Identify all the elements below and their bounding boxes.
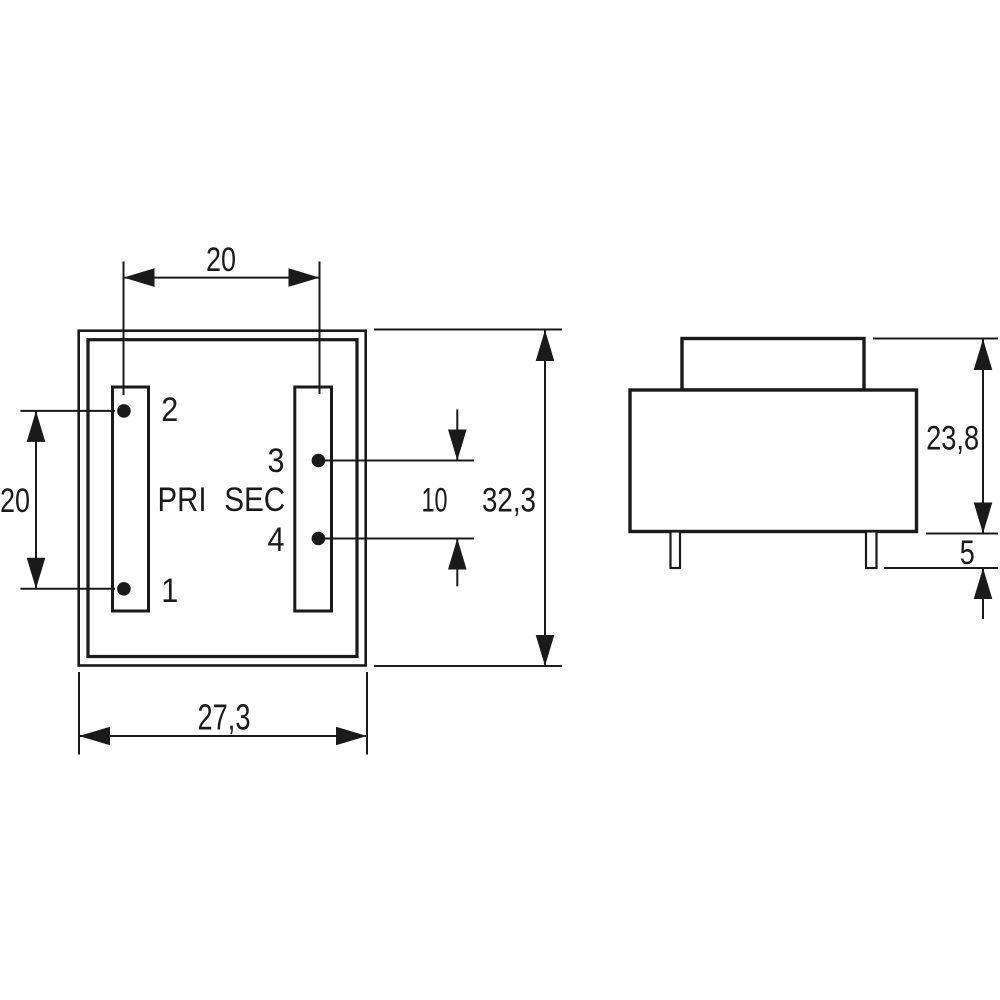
dim 27,3 left arrow bbox=[79, 727, 110, 746]
dim 10 upper arrow bbox=[448, 430, 467, 461]
left dim 20 extension line from pin 1 bbox=[20, 588, 115, 590]
side view body bbox=[630, 390, 917, 532]
left dim 20 top arrow bbox=[27, 411, 46, 442]
svg-text:2: 2 bbox=[161, 391, 178, 429]
dim 32,3 top arrow bbox=[536, 330, 555, 361]
dim 27,3 right arrow bbox=[336, 727, 367, 746]
svg-text:3: 3 bbox=[268, 442, 285, 480]
dim 23,8 dimension line bbox=[982, 339, 984, 534]
left dim 20 dimension line bbox=[35, 411, 37, 589]
transformer top view inner case bbox=[88, 340, 357, 657]
side view bobbin cap bbox=[682, 339, 864, 391]
left dim 20 extension line from pin 2 bbox=[20, 410, 115, 412]
dim 27,3 dimension line bbox=[79, 735, 367, 737]
dim 10 lower arrow bbox=[448, 539, 467, 570]
dim 32,3 bottom arrow bbox=[536, 635, 555, 666]
dim 23,8 top arrow bbox=[974, 339, 993, 370]
transformer top view outer case bbox=[79, 331, 366, 666]
svg-text:20: 20 bbox=[206, 241, 236, 279]
dim 23,8 bottom arrow bbox=[974, 503, 993, 534]
top dim 20 dimension line bbox=[124, 277, 320, 279]
svg-text:10: 10 bbox=[422, 482, 448, 520]
svg-text:SEC: SEC bbox=[224, 481, 285, 519]
dim 10 upper tail line bbox=[456, 410, 458, 461]
dim 27,3 left extension line bbox=[78, 672, 80, 755]
svg-text:20: 20 bbox=[0, 482, 30, 520]
dim 23,8 top extension line bbox=[873, 338, 998, 340]
side view right pin bbox=[866, 532, 877, 569]
top dim 20 left arrow bbox=[124, 268, 155, 287]
svg-text:4: 4 bbox=[268, 521, 285, 559]
top dim 20 right arrow bbox=[289, 268, 320, 287]
pin 3 dot bbox=[312, 454, 326, 468]
dim 32,3 bottom extension line bbox=[374, 665, 562, 667]
dim 5 lower tail line bbox=[982, 568, 984, 619]
dim 32,3 dimension line bbox=[544, 330, 546, 666]
left dim 20 bottom arrow bbox=[27, 558, 46, 589]
dim 32,3 top extension line bbox=[374, 329, 562, 331]
dim 10 extension line from pin 4 bbox=[318, 538, 474, 540]
pin 4 dot bbox=[312, 532, 326, 546]
svg-text:32,3: 32,3 bbox=[482, 482, 536, 520]
primary pin slot bbox=[113, 387, 149, 611]
dim 27,3 right extension line bbox=[366, 672, 368, 755]
top dim 20 extension line right bbox=[319, 262, 321, 395]
dim 23,8 bottom extension line bbox=[926, 533, 998, 535]
pin 2 dot bbox=[117, 404, 131, 418]
dim 10 extension line from pin 3 bbox=[318, 460, 474, 462]
svg-text:27,3: 27,3 bbox=[198, 697, 251, 738]
svg-text:23,8: 23,8 bbox=[926, 420, 979, 458]
pin 1 dot bbox=[117, 582, 131, 596]
svg-text:1: 1 bbox=[161, 572, 178, 610]
dim 5 extension line at pin bottom bbox=[884, 567, 998, 569]
dim 5 lower arrow bbox=[974, 568, 993, 599]
svg-text:5: 5 bbox=[960, 534, 975, 572]
dim 10 lower tail line bbox=[456, 539, 458, 587]
side view left pin bbox=[671, 532, 681, 569]
secondary pin slot bbox=[295, 387, 332, 611]
top dim 20 extension line left bbox=[123, 262, 125, 396]
svg-text:PRI: PRI bbox=[158, 481, 207, 519]
